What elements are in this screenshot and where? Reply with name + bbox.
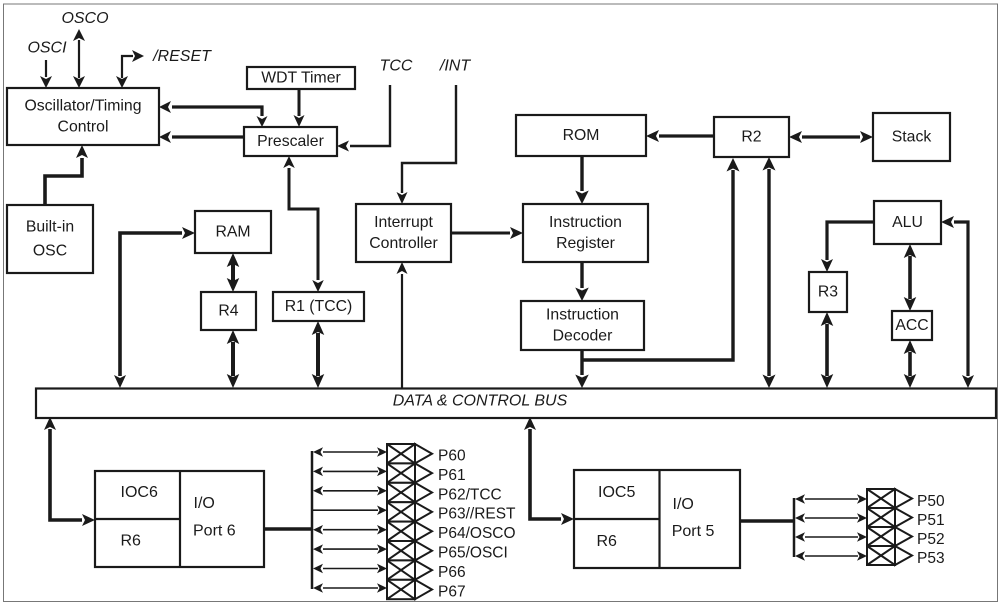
wire port5 row P53 arrow (805, 555, 858, 557)
svg-text:P61: P61 (438, 467, 466, 484)
svg-text:P60: P60 (438, 448, 466, 465)
wire bus to ALU (954, 222, 968, 376)
wire port6 row P61 arrow (323, 470, 378, 472)
wire Built-in OSC to Oscillator (45, 158, 82, 205)
wire port6 row P67 arrow (323, 587, 378, 589)
wire port5 row P50 arrow (805, 498, 858, 500)
box Built-in OSC (7, 205, 93, 273)
wire port6 row P62/TCC arrow (323, 490, 378, 492)
box RAM (195, 211, 271, 253)
box IOC6 / R6 / I/O Port 6 (95, 471, 264, 567)
divider IOC6 vertical (179, 471, 181, 567)
wire bus to IOC5 (530, 429, 561, 519)
svg-text:RAM: RAM (215, 224, 250, 241)
wire OSCO double arrow (78, 40, 80, 78)
wire port6 row P63//REST arrow (312, 509, 378, 511)
wire port6 row P66 arrow (323, 568, 378, 570)
divider IOC6 horizontal (95, 518, 180, 520)
wire WDT Timer to Prescaler (298, 89, 301, 116)
svg-text:Stack: Stack (892, 129, 932, 146)
svg-text:Decoder: Decoder (553, 328, 613, 345)
svg-text:Controller: Controller (369, 235, 437, 252)
pin pad P62/TCC (387, 483, 415, 502)
wire R2 to Stack double arrow (802, 135, 860, 138)
box Interrupt Controller (356, 204, 451, 262)
wire ALU to R3 (827, 222, 874, 260)
wire port5 row P52 arrow (805, 536, 858, 538)
svg-text:Control: Control (58, 119, 109, 136)
wire ROM to Instruction Register (580, 156, 583, 191)
box Oscillator/Timing Control U1 (7, 88, 159, 145)
box Prescaler (244, 127, 337, 156)
wire R2 to ROM (659, 134, 714, 137)
svg-text:P64/OSCO: P64/OSCO (438, 525, 516, 542)
pin pad P52 (867, 527, 895, 546)
wire Instruction Decoder to bus (580, 350, 583, 375)
wire port6 pin trunk (311, 451, 314, 589)
pin pad P53 (867, 546, 895, 565)
svg-text:IOC5: IOC5 (598, 484, 635, 501)
svg-text:Prescaler: Prescaler (257, 133, 324, 150)
wire Interrupt Controller to Instruction Register (451, 232, 510, 235)
svg-text:Built-in: Built-in (26, 219, 74, 236)
svg-text:OSCI: OSCI (27, 40, 67, 57)
svg-text:I/O: I/O (673, 496, 694, 513)
wire port6 row P60 arrow (323, 451, 378, 453)
box IOC5 / R6 / I/O Port 5 (574, 470, 740, 568)
wire R1 (TCC) to bus double arrow (316, 333, 320, 376)
svg-text:I/O: I/O (194, 495, 215, 512)
wire RAM to R4 double arrow (231, 264, 235, 281)
wire R4 to bus double arrow (231, 342, 235, 376)
pin pad P51 (867, 508, 895, 527)
svg-text:Interrupt: Interrupt (374, 214, 433, 231)
svg-text:R6: R6 (597, 533, 618, 550)
svg-text:TCC: TCC (380, 58, 413, 75)
box Instruction Register (523, 204, 648, 262)
wire Prescaler to Oscillator (lower) (172, 135, 244, 138)
svg-text:Instruction: Instruction (549, 214, 622, 231)
svg-text:ROM: ROM (563, 127, 600, 144)
pin pad P65/OSCI (387, 541, 415, 560)
svg-text:P63//REST: P63//REST (438, 506, 516, 523)
wire Prescaler to R1 (TCC) (289, 168, 318, 280)
svg-text:OSCO: OSCO (61, 10, 108, 27)
wire OSCI input arrow (45, 60, 47, 77)
svg-text:DATA & CONTROL BUS: DATA & CONTROL BUS (393, 393, 568, 410)
svg-text:P50: P50 (917, 493, 945, 510)
pin pad P66 (387, 560, 415, 579)
wire R2 to bus double arrow (767, 169, 770, 376)
bus DATA & CONTROL BUS (36, 389, 996, 419)
wire port5 pin trunk (793, 498, 796, 557)
svg-text:ACC: ACC (895, 317, 928, 334)
wire Port 5 feed to pin trunk (740, 519, 794, 523)
pin pad P50 (867, 489, 895, 508)
wire port5 row P51 arrow (805, 517, 858, 519)
pin pad P64/OSCO (387, 522, 415, 541)
svg-text:R1 (TCC): R1 (TCC) (285, 298, 353, 315)
divider IOC5 horizontal (574, 518, 660, 520)
svg-text:Oscillator/Timing: Oscillator/Timing (24, 98, 141, 115)
svg-text:P53: P53 (917, 550, 945, 567)
svg-text:OSC: OSC (33, 243, 67, 260)
divider IOC5 vertical (658, 470, 660, 568)
wire Oscillator to Prescaler (upper) (172, 107, 262, 116)
wire bus to IOC6 (50, 429, 82, 520)
svg-text:Register: Register (556, 235, 615, 252)
wire port6 row P65/OSCI arrow (323, 548, 378, 550)
svg-text:/INT: /INT (439, 58, 471, 75)
wire bus to Interrupt Controller (401, 274, 403, 388)
svg-text:R3: R3 (818, 284, 838, 301)
wire ACC to bus double arrow (908, 352, 912, 376)
svg-text:/RESET: /RESET (152, 48, 212, 65)
wire Port 6 feed to pin trunk (265, 527, 312, 531)
pin pad P61 (387, 463, 415, 482)
box R1 (TCC) (273, 292, 364, 321)
box ACC (892, 311, 932, 340)
svg-text:ALU: ALU (892, 214, 923, 231)
svg-text:P66: P66 (438, 564, 466, 581)
box WDT Timer (247, 67, 355, 89)
box Instruction Decoder (521, 301, 644, 350)
wire Instruction Register to Instruction Decoder (580, 262, 583, 288)
svg-text:P51: P51 (917, 512, 945, 529)
wire ALU to ACC double arrow (908, 256, 912, 299)
svg-text:P62/TCC: P62/TCC (438, 486, 502, 503)
box Stack (873, 113, 950, 161)
wire port6 row P64/OSCO arrow (323, 529, 378, 531)
box R3 (809, 272, 847, 312)
wire /RESET elbow arrow (122, 56, 133, 78)
svg-text:R4: R4 (218, 303, 238, 320)
svg-text:Instruction: Instruction (546, 307, 619, 324)
svg-text:P65/OSCI: P65/OSCI (438, 545, 508, 562)
box R2 (714, 117, 789, 157)
box ALU (874, 201, 941, 244)
wire R3 to bus double arrow (825, 324, 829, 376)
svg-text:P52: P52 (917, 531, 945, 548)
box ROM (516, 115, 646, 156)
pin pad P67 (387, 580, 415, 599)
wire bus to RAM (120, 233, 182, 376)
svg-text:Port 6: Port 6 (193, 523, 236, 540)
wire TCC to Prescaler (350, 85, 390, 146)
svg-text:IOC6: IOC6 (121, 484, 158, 501)
pin pad P60 (387, 444, 415, 463)
svg-text:Port 5: Port 5 (672, 523, 715, 540)
svg-text:P67: P67 (438, 583, 466, 600)
box R4 (201, 292, 256, 330)
svg-text:WDT Timer: WDT Timer (261, 70, 341, 87)
svg-text:R6: R6 (121, 533, 142, 550)
wire /INT to Interrupt Controller (402, 85, 456, 193)
wire Instruction Decoder junction to R2 (582, 170, 733, 360)
pin pad P63//REST (387, 502, 415, 521)
svg-text:R2: R2 (741, 129, 761, 146)
